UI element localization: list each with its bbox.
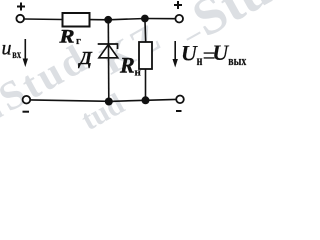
node B (top of load) (141, 15, 149, 23)
wire bottom rail right (146, 98, 176, 101)
wire top rail left (24, 18, 62, 21)
svg-text:вых: вых (228, 53, 246, 68)
decorative watermark background (unlabeled) (0, 33, 96, 121)
minus sign bottom-right (176, 110, 182, 112)
zener diode Д (triangle) (99, 45, 118, 58)
node A (top of diode) (104, 16, 112, 24)
minus sign bottom-left (23, 111, 30, 113)
svg-text:н: н (135, 66, 142, 78)
svg-text:U: U (212, 40, 229, 65)
resistor Rг (63, 13, 90, 27)
plus sign top-left (17, 3, 25, 11)
label Uн=Uвых (181, 40, 247, 68)
plus sign top-right (174, 1, 182, 9)
node C (bottom of diode) (105, 98, 113, 106)
zener diode Д (cathode bar with tick) (98, 44, 118, 49)
terminal bottom-right (176, 96, 184, 104)
arrow Uн (downward) (173, 41, 178, 68)
wire load branch top (144, 19, 147, 43)
svg-text:Д: Д (78, 48, 93, 68)
svg-text:U: U (181, 41, 198, 66)
wire load branch bottom (145, 69, 147, 100)
svg-text:R: R (58, 26, 74, 47)
node D (bottom of load) (142, 96, 150, 104)
svg-text:R: R (119, 52, 135, 77)
terminal top-left (16, 15, 24, 23)
terminal top-right (175, 15, 183, 23)
svg-text:г: г (76, 35, 81, 47)
wire top rail node A to node B (108, 19, 145, 20)
svg-text:вх: вх (12, 47, 21, 61)
terminal bottom-left (23, 96, 31, 104)
wire bottom rail left (30, 100, 108, 101)
wire top rail resistor to node A (90, 19, 109, 21)
wire bottom rail middle (109, 100, 146, 101)
wire top rail node B to terminal (145, 18, 175, 20)
wire diode branch (node A to node C, through triangle) (107, 20, 110, 102)
resistor Rн (139, 42, 152, 69)
svg-text:u: u (2, 38, 12, 60)
arrow uвх (downward) (23, 39, 28, 67)
